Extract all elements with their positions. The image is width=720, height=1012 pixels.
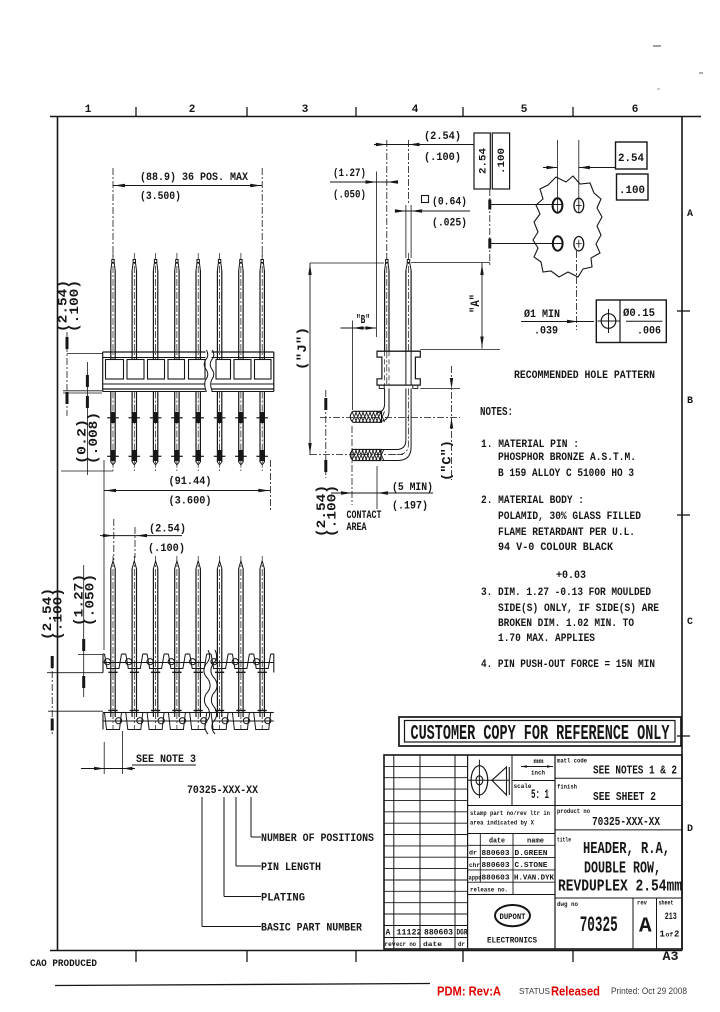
svg-text:4: 4	[412, 104, 419, 116]
svg-text:Printed: Oct 29 2008: Printed: Oct 29 2008	[611, 986, 687, 996]
svg-text:HEADER, R.A,: HEADER, R.A,	[583, 840, 670, 859]
svg-text:A: A	[639, 916, 652, 939]
dimension (0.2)/(.008) stand-off	[86, 362, 88, 475]
RA upper bent pin with contact area	[378, 389, 385, 413]
svg-text:(3.600): (3.600)	[169, 496, 212, 508]
svg-text:70325-XXX-XX: 70325-XXX-XX	[592, 816, 660, 829]
view1 lower pin tails x8	[110, 392, 112, 463]
dimension "A" pin length above body	[411, 262, 490, 264]
svg-text:dr: dr	[469, 850, 477, 857]
approvals table	[468, 844, 555, 846]
svg-text:date: date	[423, 941, 442, 948]
dimension (1.27)/(.050)	[330, 181, 397, 183]
svg-text:BASIC PART NUMBER: BASIC PART NUMBER	[261, 923, 362, 935]
RA view insulator body profile	[377, 351, 420, 385]
dimension (2.54)/(.100) pin pitch RA	[386, 140, 388, 258]
svg-text:5: 1: 5: 1	[531, 787, 549, 802]
dimension (91.44)/(3.600)	[103, 460, 105, 650]
svg-text:date: date	[489, 838, 505, 846]
svg-text:B: B	[687, 396, 693, 407]
svg-text:3. DIM. 1.27 -0.13 FOR MOULDED: 3. DIM. 1.27 -0.13 FOR MOULDED	[481, 587, 651, 599]
hole pattern holes 2x2	[553, 198, 563, 212]
svg-text:D.GREEN: D.GREEN	[515, 850, 548, 858]
svg-text:880603: 880603	[482, 875, 511, 883]
svg-text:SIDE(S) ONLY, IF SIDE(S) ARE: SIDE(S) ONLY, IF SIDE(S) ARE	[498, 603, 659, 615]
title block outline	[384, 755, 682, 949]
svg-text:C.STONE: C.STONE	[515, 862, 549, 870]
material/finish/product/title cells	[555, 777, 682, 779]
svg-text:Ø1 MIN: Ø1 MIN	[524, 309, 560, 321]
svg-text:NUMBER OF POSITIONS: NUMBER OF POSITIONS	[261, 833, 374, 845]
view1 upper pins x8	[111, 260, 115, 271]
dimension "J" overall length	[309, 263, 311, 455]
view1 insulator body with cavities	[103, 351, 206, 353]
dimension (2.54)/(.100) row pitch view2	[51, 658, 53, 736]
view2 break lines	[204, 650, 210, 734]
view2 back row body scallops	[103, 653, 105, 655]
svg-text:880603: 880603	[482, 850, 511, 858]
svg-text:BROKEN DIM. 1.02 MIN. TO: BROKEN DIM. 1.02 MIN. TO	[498, 618, 634, 630]
svg-text:("J"): ("J")	[295, 327, 310, 370]
position tolerance feature control frame	[596, 300, 666, 343]
svg-text:+0.03: +0.03	[556, 570, 586, 582]
svg-text:STATUS: STATUS	[519, 986, 550, 996]
svg-text:(.050): (.050)	[83, 574, 98, 626]
svg-text:(.100): (.100)	[148, 543, 185, 555]
svg-text:Ø0.15: Ø0.15	[623, 308, 655, 320]
border ruler ticks and column numbers	[135, 107, 137, 117]
svg-text:rev: rev	[385, 941, 396, 948]
svg-text:A: A	[687, 209, 693, 220]
svg-text:release no.: release no.	[470, 887, 508, 894]
svg-text:(.100): (.100)	[325, 485, 340, 537]
svg-text:D: D	[687, 824, 693, 835]
svg-text:PHOSPHOR BRONZE A.S.T.M.: PHOSPHOR BRONZE A.S.T.M.	[498, 452, 636, 464]
svg-text:SEE SHEET 2: SEE SHEET 2	[593, 791, 656, 804]
dimension "B"	[352, 321, 354, 411]
svg-text:appd: appd	[469, 874, 482, 881]
svg-text:.100: .100	[496, 148, 508, 174]
svg-text:CONTACT: CONTACT	[347, 510, 382, 522]
svg-text:chr: chr	[469, 862, 480, 869]
drawing frame border	[50, 116, 701, 118]
svg-text:CUSTOMER COPY FOR REFERENCE ON: CUSTOMER COPY FOR REFERENCE ONLY	[411, 722, 670, 746]
dimension square 0.64 pin size	[405, 205, 407, 258]
dwg no / rev / sheet cells	[632, 898, 634, 949]
svg-text:(.008): (.008)	[86, 412, 101, 464]
svg-text:NOTES:: NOTES:	[480, 406, 513, 419]
svg-text:(88.9) 36 POS. MAX: (88.9) 36 POS. MAX	[140, 172, 248, 184]
svg-text:(.050): (.050)	[333, 190, 366, 202]
svg-text:B 159 ALLOY C 51000 HO 3: B 159 ALLOY C 51000 HO 3	[498, 468, 634, 480]
svg-text:880603: 880603	[424, 929, 453, 938]
svg-text:(.100): (.100)	[424, 152, 461, 164]
dimension (88.9) 36 POS. MAX / (3.500)	[112, 168, 114, 258]
svg-text:4. PIN PUSH-OUT FORCE = 15N MI: 4. PIN PUSH-OUT FORCE = 15N MIN	[481, 659, 655, 671]
svg-text:CAO PRODUCED: CAO PRODUCED	[30, 959, 97, 970]
svg-text:2: 2	[674, 930, 679, 940]
svg-text:name: name	[527, 838, 544, 846]
svg-text:(0.64): (0.64)	[432, 197, 467, 209]
revision table	[393, 755, 395, 949]
svg-text:70325: 70325	[580, 913, 618, 938]
svg-text:H.VAN.DYK: H.VAN.DYK	[514, 875, 554, 883]
svg-text:.006: .006	[637, 326, 661, 338]
svg-text:94 V-0 COLOUR BLACK: 94 V-0 COLOUR BLACK	[498, 542, 613, 554]
svg-text:SEE NOTE 3: SEE NOTE 3	[136, 754, 196, 766]
svg-text:REVDUPLEX 2.54mm: REVDUPLEX 2.54mm	[558, 878, 682, 897]
third angle projection symbol	[511, 755, 513, 806]
svg-text:11122: 11122	[397, 929, 422, 938]
dimension (2.54)/(.100) above view2	[113, 519, 115, 560]
svg-text:(1.27): (1.27)	[333, 168, 366, 180]
dimension (1.27)/(.050) left of view2	[83, 565, 85, 697]
DuPont logo	[495, 905, 530, 926]
svg-text:stamp part no/rev ltr in: stamp part no/rev ltr in	[470, 810, 550, 817]
svg-text:sheet: sheet	[659, 900, 674, 907]
svg-text:(.100): (.100)	[51, 588, 66, 640]
svg-text:DGR: DGR	[457, 929, 468, 938]
svg-text:ELECTRONICS: ELECTRONICS	[487, 936, 537, 946]
svg-text:AREA: AREA	[347, 522, 367, 534]
svg-text:.100: .100	[619, 185, 645, 197]
svg-text:PDM: Rev:A: PDM: Rev:A	[437, 984, 502, 999]
RA lower bent pin with contact area	[381, 389, 406, 450]
svg-text:1.70 MAX. APPLIES: 1.70 MAX. APPLIES	[498, 633, 595, 645]
dimension diameter 1 MIN / .039	[576, 251, 578, 330]
svg-text:(.100): (.100)	[67, 280, 82, 332]
svg-text:"B": "B"	[356, 313, 370, 327]
stamp note cell	[468, 833, 555, 835]
stray scan marks	[653, 45, 661, 47]
svg-text:matl code: matl code	[557, 758, 587, 765]
svg-text:PLATING: PLATING	[261, 893, 305, 905]
svg-text:("C"): ("C")	[440, 440, 455, 481]
SEE NOTE 3 callout	[103, 742, 105, 774]
dimension (2.54)/(.100) RA row spacing	[325, 390, 327, 478]
RA contact row centerlines	[320, 417, 460, 419]
svg-text:5: 5	[521, 104, 528, 116]
svg-text:3: 3	[302, 104, 309, 116]
svg-text:SEE NOTES 1 & 2: SEE NOTES 1 & 2	[593, 765, 677, 778]
svg-text:DUPONT: DUPONT	[500, 912, 526, 922]
dimension (2.54)/(.100) left of view1 body	[66, 332, 68, 416]
svg-text:PIN LENGTH: PIN LENGTH	[261, 862, 321, 874]
dimension ("C")	[420, 388, 460, 390]
svg-text:(3.500): (3.500)	[140, 191, 181, 203]
hole pattern board outline (jagged)	[533, 176, 602, 277]
svg-text:ecr no: ecr no	[396, 941, 416, 948]
svg-text:title: title	[557, 837, 571, 844]
svg-text:2: 2	[189, 104, 196, 116]
svg-text:2. MATERIAL BODY :: 2. MATERIAL BODY :	[481, 495, 584, 507]
svg-text:(2.54): (2.54)	[424, 131, 461, 143]
svg-text:(2.54): (2.54)	[149, 524, 186, 536]
svg-text:(5 MIN): (5 MIN)	[392, 482, 433, 494]
svg-text:6: 6	[632, 104, 639, 116]
hole pattern top dimension 2.54/.100 boxed	[557, 140, 559, 213]
svg-text:dwg no: dwg no	[557, 901, 578, 908]
svg-text:POLAMID, 30% GLASS FILLED: POLAMID, 30% GLASS FILLED	[498, 511, 641, 523]
svg-text:RECOMMENDED HOLE PATTERN: RECOMMENDED HOLE PATTERN	[514, 370, 655, 382]
svg-text:2.54: 2.54	[618, 153, 644, 165]
svg-text:213: 213	[665, 911, 677, 923]
view2 pins x8 (top view)	[111, 561, 115, 569]
svg-text:.039: .039	[534, 326, 558, 338]
svg-text:A: A	[386, 929, 391, 938]
svg-text:(.025): (.025)	[432, 218, 467, 230]
dimension (5 MIN)/(.197)	[351, 426, 353, 505]
svg-text:area indicated by X: area indicated by X	[470, 820, 534, 827]
svg-text:(.197): (.197)	[392, 501, 428, 513]
svg-text:scale: scale	[514, 783, 532, 790]
svg-text:Released: Released	[551, 984, 600, 999]
svg-text:(91.44): (91.44)	[169, 476, 212, 488]
hole row leader lines	[490, 204, 563, 206]
svg-text:product no: product no	[557, 808, 590, 815]
view2 front row body scallops	[103, 712, 105, 714]
svg-text:DOUBLE ROW,: DOUBLE ROW,	[584, 860, 661, 879]
svg-text:mm: mm	[534, 758, 544, 765]
svg-text:rev: rev	[637, 900, 647, 907]
svg-text:1. MATERIAL PIN :: 1. MATERIAL PIN :	[481, 439, 579, 451]
svg-text:2.54: 2.54	[478, 148, 490, 174]
svg-text:of: of	[666, 932, 674, 939]
svg-text:finish: finish	[557, 784, 577, 791]
svg-text:FLAME RETARDANT PER U.L.: FLAME RETARDANT PER U.L.	[498, 527, 635, 539]
svg-text:70325-XXX-XX: 70325-XXX-XX	[187, 785, 258, 797]
svg-text:A3: A3	[663, 950, 679, 964]
RA view vertical pins x2	[385, 260, 389, 271]
svg-text:1: 1	[85, 104, 92, 116]
svg-text:880603: 880603	[482, 862, 511, 870]
boxed rotated dims 2.54/.100	[474, 133, 490, 189]
svg-text:dr: dr	[458, 941, 465, 948]
CUSTOMER COPY FOR REFERENCE ONLY banner	[399, 717, 681, 746]
svg-text:"A": "A"	[468, 294, 483, 313]
svg-text:C: C	[687, 617, 693, 628]
svg-text:inch: inch	[531, 770, 545, 777]
